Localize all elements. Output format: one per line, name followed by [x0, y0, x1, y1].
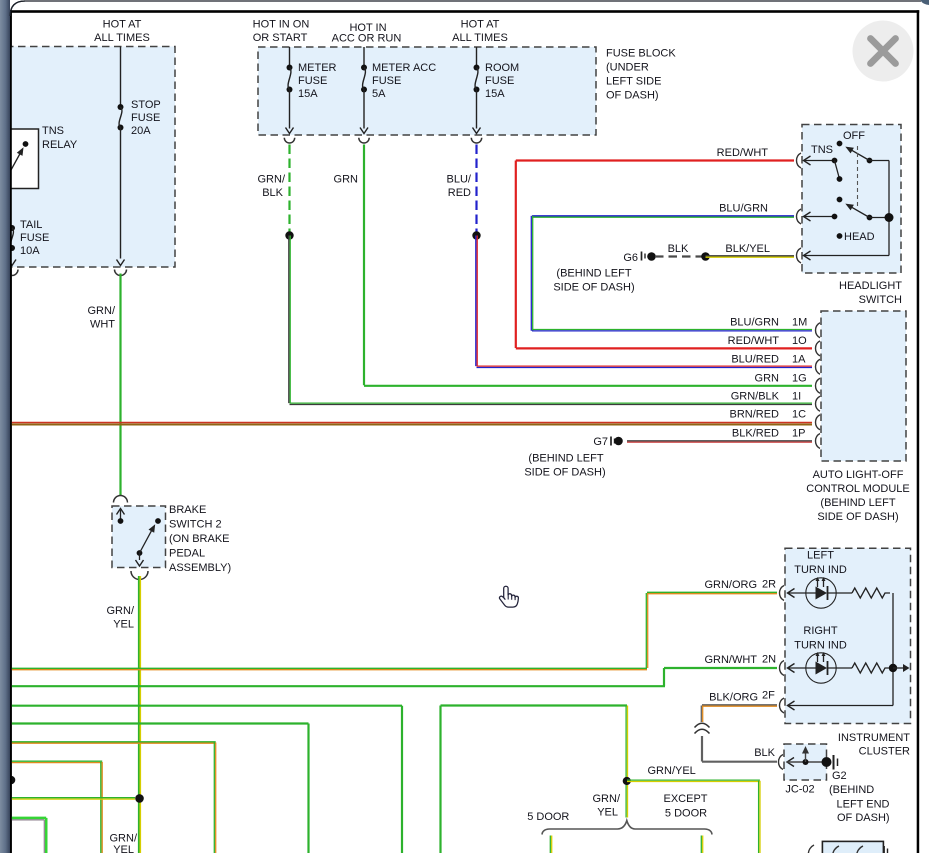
- svg-text:HOT AT: HOT AT: [103, 19, 142, 31]
- arrow to right edge: [893, 667, 903, 669]
- svg-text:G7: G7: [593, 436, 608, 448]
- module pin 1I connector: [816, 396, 821, 411]
- headlight switch box: [802, 125, 901, 274]
- stop fuse exit arrow and connector: [117, 260, 125, 266]
- svg-text:GRN/ORG: GRN/ORG: [704, 579, 757, 591]
- svg-text:1P: 1P: [792, 428, 805, 440]
- auto light-off control module box: [821, 311, 906, 461]
- wire GRN/BLK solid down to module row: [288, 236, 290, 404]
- ground G2: [822, 757, 832, 767]
- junction dot right rail: [889, 664, 897, 672]
- svg-text:HEAD: HEAD: [844, 231, 875, 243]
- svg-text:HEADLIGHT: HEADLIGHT: [839, 280, 902, 292]
- svg-text:BLK: BLK: [754, 747, 775, 759]
- svg-text:OFF: OFF: [843, 130, 865, 142]
- svg-text:RIGHT: RIGHT: [803, 625, 838, 637]
- svg-text:BLU/RED: BLU/RED: [731, 353, 779, 365]
- svg-text:CONTROL MODULE: CONTROL MODULE: [806, 483, 910, 495]
- svg-text:(BEHIND: (BEHIND: [829, 784, 874, 796]
- svg-text:FUSE: FUSE: [20, 232, 49, 244]
- card rounded top-left corner + thin top border: [10, 1, 921, 16]
- svg-text:ROOM: ROOM: [485, 62, 519, 74]
- switch arm 1 (to OFF): [867, 158, 873, 164]
- svg-text:BLK/ORG: BLK/ORG: [709, 692, 758, 704]
- junction dot on GRN/YEL vertical: [135, 794, 144, 803]
- wire BLK/RED from G7 to module pin 1P: [627, 440, 812, 442]
- wire BRN/RED to module pin 1C: [11, 422, 812, 424]
- bottom connector box: [822, 841, 883, 855]
- diagram left border: [10, 10, 12, 853]
- left turn resistor: [852, 588, 890, 598]
- module pin 1M connector: [816, 323, 821, 338]
- JC-02 pin connector: [779, 755, 784, 770]
- svg-text:(ON BRAKE: (ON BRAKE: [169, 533, 230, 545]
- svg-text:20A: 20A: [131, 125, 151, 137]
- svg-text:CLUSTER: CLUSTER: [859, 746, 910, 758]
- svg-text:2R: 2R: [762, 579, 776, 591]
- svg-text:OF DASH): OF DASH): [837, 812, 890, 824]
- cluster right rail: [892, 593, 894, 706]
- junction dot GRN/YEL branch: [623, 777, 631, 785]
- JC-02 up arrow: [805, 750, 807, 762]
- wire GRN horizontal to module pin 1G: [364, 385, 812, 387]
- svg-text:TURN IND: TURN IND: [794, 640, 847, 652]
- fuse block left box: [0, 47, 175, 268]
- junction dot on BLK/YEL: [701, 252, 710, 261]
- svg-text:5A: 5A: [372, 88, 386, 100]
- wire GRN/YEL down to brace: [625, 785, 627, 818]
- svg-text:1O: 1O: [792, 335, 807, 347]
- svg-text:RED/WHT: RED/WHT: [717, 147, 769, 159]
- headlight switch pin connector (BLU/GRN): [797, 209, 801, 224]
- right turn indicator LED: [806, 653, 836, 683]
- svg-text:LEFT END: LEFT END: [837, 799, 890, 811]
- wire GRN bottom-left corner: [11, 817, 46, 820]
- switch common rail: [870, 160, 890, 162]
- svg-text:BLK/RED: BLK/RED: [732, 428, 779, 440]
- wire except 5 door branch: [700, 836, 702, 854]
- bottom box connectors: [808, 845, 814, 858]
- switch arm 2 (to TNS2): [867, 215, 873, 221]
- svg-text:BLK: BLK: [262, 187, 283, 199]
- svg-text:SWITCH: SWITCH: [859, 294, 902, 306]
- top-right blue corner fragment: [921, 0, 929, 5]
- switch TNS wiper contacts: [804, 160, 835, 162]
- svg-text:RED/WHT: RED/WHT: [728, 335, 780, 347]
- svg-text:HOT AT: HOT AT: [461, 19, 500, 31]
- svg-text:OF DASH): OF DASH): [606, 90, 659, 102]
- left window edge gradient strip: [0, 0, 10, 853]
- brake switch arm: [137, 550, 143, 556]
- wire BLK down to JC-02: [701, 736, 703, 762]
- brake switch output arrow: [139, 553, 141, 560]
- svg-text:YEL: YEL: [597, 807, 618, 819]
- cluster bottom rail to 2F: [788, 705, 894, 707]
- svg-text:5 DOOR: 5 DOOR: [665, 807, 707, 819]
- wire BLK/ORG from cluster 2F: [702, 704, 777, 706]
- svg-text:FUSE: FUSE: [131, 112, 160, 124]
- svg-text:INSTRUMENT: INSTRUMENT: [838, 732, 910, 744]
- wire GRN/WHT from left to cluster 2N: [664, 667, 777, 669]
- svg-text:(UNDER: (UNDER: [606, 62, 649, 74]
- svg-text:1G: 1G: [792, 372, 807, 384]
- wire BLK dashed from G6: [655, 255, 705, 257]
- TNS relay contact: [23, 141, 29, 147]
- svg-text:HOT IN ON: HOT IN ON: [253, 19, 310, 31]
- cluster pin 2F connector: [780, 698, 785, 713]
- diagram right border: [917, 10, 920, 853]
- svg-text:ACC OR RUN: ACC OR RUN: [332, 33, 402, 45]
- tail fuse exit arrow and connector: [8, 260, 16, 266]
- svg-text:1I: 1I: [792, 390, 801, 402]
- svg-text:TURN IND: TURN IND: [794, 564, 847, 576]
- switch mechanical link dashed: [857, 146, 859, 207]
- svg-text:STOP: STOP: [131, 99, 161, 111]
- svg-text:OR START: OR START: [253, 32, 308, 44]
- wire GRN/YEL from brake switch down: [138, 576, 140, 853]
- module pin 1O connector: [816, 341, 821, 356]
- wire GRN/YEL to bottom right corner: [627, 779, 760, 781]
- wire GRY stripe bottom-left corner: [11, 819, 44, 821]
- headlight switch pin connector TNS (RED/WHT): [797, 153, 801, 168]
- junction on GRN/BLK wire: [285, 231, 293, 239]
- svg-text:GRN/YEL: GRN/YEL: [648, 765, 696, 777]
- svg-text:WHT: WHT: [90, 319, 115, 331]
- svg-text:10A: 10A: [20, 245, 40, 257]
- wire GRN at y705 from left: [11, 705, 402, 707]
- wire GRN/ORG from left to cluster 2R: [647, 591, 777, 593]
- wire BLU/RED horizontal to module pin 1A: [477, 365, 813, 367]
- wire BLU/RED dashed from room fuse: [475, 145, 477, 236]
- svg-text:SIDE OF DASH): SIDE OF DASH): [524, 467, 605, 479]
- svg-text:BRAKE: BRAKE: [169, 504, 206, 516]
- wire GRN from meter acc fuse: [363, 145, 365, 386]
- svg-text:GRN: GRN: [334, 174, 359, 186]
- svg-text:BLU/GRN: BLU/GRN: [730, 317, 779, 329]
- svg-text:1C: 1C: [792, 409, 806, 421]
- brake switch contact right: [155, 518, 161, 524]
- svg-text:LEFT: LEFT: [807, 550, 834, 562]
- svg-text:GRN/: GRN/: [88, 305, 116, 317]
- svg-text:TNS: TNS: [42, 125, 64, 137]
- switch arm 2 contacts: [837, 197, 843, 203]
- svg-text:ASSEMBLY): ASSEMBLY): [169, 562, 231, 574]
- module pin 1P connector: [816, 434, 821, 449]
- svg-text:RELAY: RELAY: [42, 139, 78, 151]
- brake switch 2 entry connector: [114, 496, 128, 503]
- svg-text:SWITCH 2: SWITCH 2: [169, 519, 222, 531]
- diagram top border: [10, 10, 919, 13]
- stop fuse 20A: [120, 47, 122, 108]
- meter fuse 15A: [289, 47, 291, 68]
- svg-text:GRN/: GRN/: [258, 174, 286, 186]
- svg-text:YEL: YEL: [113, 844, 134, 853]
- left turn indicator LED: [806, 578, 836, 608]
- svg-text:FUSE: FUSE: [298, 75, 327, 87]
- wire GRN/ORG at y762 from left: [11, 760, 102, 762]
- wire BLK/YEL to headlight switch: [706, 255, 795, 257]
- svg-text:TNS: TNS: [811, 144, 833, 156]
- brake switch input arrow: [120, 510, 122, 521]
- module pin 1A connector: [816, 359, 821, 374]
- svg-text:RED: RED: [448, 187, 471, 199]
- wire GRN/BLK horizontal to module pin 1I: [290, 402, 813, 404]
- brake switch exit connector: [131, 571, 148, 579]
- svg-text:(BEHIND LEFT: (BEHIND LEFT: [820, 497, 895, 509]
- wire GRN at y723 from left: [11, 722, 309, 724]
- wire BLU/RED solid down: [475, 236, 477, 367]
- module pin 1C connector: [816, 415, 821, 430]
- svg-text:G2: G2: [832, 770, 847, 782]
- wire GRN/YEL at y799 from left to junction: [11, 797, 135, 799]
- svg-text:ALL TIMES: ALL TIMES: [452, 32, 508, 44]
- fuse block box: [258, 47, 596, 135]
- svg-text:JC-02: JC-02: [785, 784, 814, 796]
- svg-text:FUSE: FUSE: [372, 75, 401, 87]
- wire 5 door branch: [549, 836, 551, 854]
- svg-text:SIDE OF DASH): SIDE OF DASH): [553, 282, 634, 294]
- wire BLU/GRN from headlight switch to module pin 1M: [532, 215, 794, 217]
- close button: [853, 21, 914, 82]
- svg-text:EXCEPT: EXCEPT: [663, 793, 707, 805]
- diagram left border: [10, 10, 12, 853]
- tail fuse symbol at left edge: [9, 225, 15, 231]
- svg-text:FUSE: FUSE: [485, 75, 514, 87]
- JC-02 box: [784, 744, 827, 780]
- svg-text:GRN/WHT: GRN/WHT: [704, 654, 757, 666]
- module pin 1G connector: [816, 378, 821, 393]
- wire GRN inverted-U to GRN/YEL branch: [439, 706, 441, 854]
- cluster pin 2N connector: [780, 661, 785, 676]
- cluster pin 2R connector: [780, 586, 784, 601]
- svg-text:SIDE OF DASH): SIDE OF DASH): [817, 511, 898, 523]
- headlight switch pin connector (BLK/YEL): [797, 248, 801, 263]
- svg-text:BLU/GRN: BLU/GRN: [719, 203, 768, 215]
- mouse cursor: [499, 586, 518, 607]
- wire GRN/WHT from stop fuse to brake switch 2: [119, 274, 121, 496]
- svg-text:1A: 1A: [792, 353, 806, 365]
- svg-text:BRN/RED: BRN/RED: [729, 409, 779, 421]
- svg-text:(BEHIND LEFT: (BEHIND LEFT: [556, 268, 631, 280]
- svg-text:METER: METER: [298, 62, 337, 74]
- svg-text:GRN: GRN: [755, 372, 780, 384]
- svg-text:G6: G6: [623, 252, 638, 264]
- svg-text:5 DOOR: 5 DOOR: [527, 811, 569, 823]
- junction on BLU/RED wire: [472, 231, 480, 239]
- svg-text:BLU/: BLU/: [447, 174, 472, 186]
- svg-text:METER ACC: METER ACC: [372, 62, 436, 74]
- switch HEAD contact: [837, 233, 843, 239]
- svg-text:15A: 15A: [298, 88, 318, 100]
- svg-text:BLK/YEL: BLK/YEL: [725, 243, 770, 255]
- TNS relay box: [0, 129, 39, 189]
- JC-02 internal wire: [787, 761, 825, 763]
- switch OFF contact: [837, 141, 843, 147]
- instrument cluster box: [785, 548, 911, 723]
- svg-text:YEL: YEL: [113, 619, 134, 631]
- svg-text:15A: 15A: [485, 88, 505, 100]
- svg-text:(BEHIND LEFT: (BEHIND LEFT: [528, 453, 603, 465]
- brake switch 2 box: [112, 506, 166, 568]
- wire GRN/BLK dashed from meter fuse: [288, 145, 290, 236]
- svg-text:LEFT SIDE: LEFT SIDE: [606, 76, 661, 88]
- svg-text:BLK: BLK: [668, 243, 689, 255]
- svg-text:1M: 1M: [792, 317, 807, 329]
- svg-text:2F: 2F: [762, 690, 775, 702]
- svg-text:GRN/: GRN/: [593, 793, 621, 805]
- card rounded top-left corner: [10, 1, 25, 16]
- wire GRN/ORG at y742 from left: [11, 741, 216, 743]
- svg-text:AUTO LIGHT-OFF: AUTO LIGHT-OFF: [813, 469, 904, 481]
- svg-text:FUSE BLOCK: FUSE BLOCK: [606, 48, 676, 60]
- svg-text:TAIL: TAIL: [20, 219, 42, 231]
- svg-text:2N: 2N: [762, 654, 776, 666]
- svg-text:GRN/: GRN/: [107, 605, 135, 617]
- svg-text:ALL TIMES: ALL TIMES: [94, 32, 150, 44]
- wire RED/WHT from headlight switch to module pin 1O: [516, 159, 794, 161]
- wire break connector symbol: [695, 723, 710, 733]
- room fuse 15A: [476, 47, 478, 68]
- svg-text:GRN/: GRN/: [110, 833, 138, 845]
- split brace: [542, 821, 712, 835]
- meter acc fuse 5A: [363, 47, 365, 68]
- svg-text:GRN/BLK: GRN/BLK: [731, 390, 780, 402]
- svg-text:PEDAL: PEDAL: [169, 548, 205, 560]
- right turn resistor: [852, 663, 890, 673]
- junction dot at left edge: [7, 776, 16, 785]
